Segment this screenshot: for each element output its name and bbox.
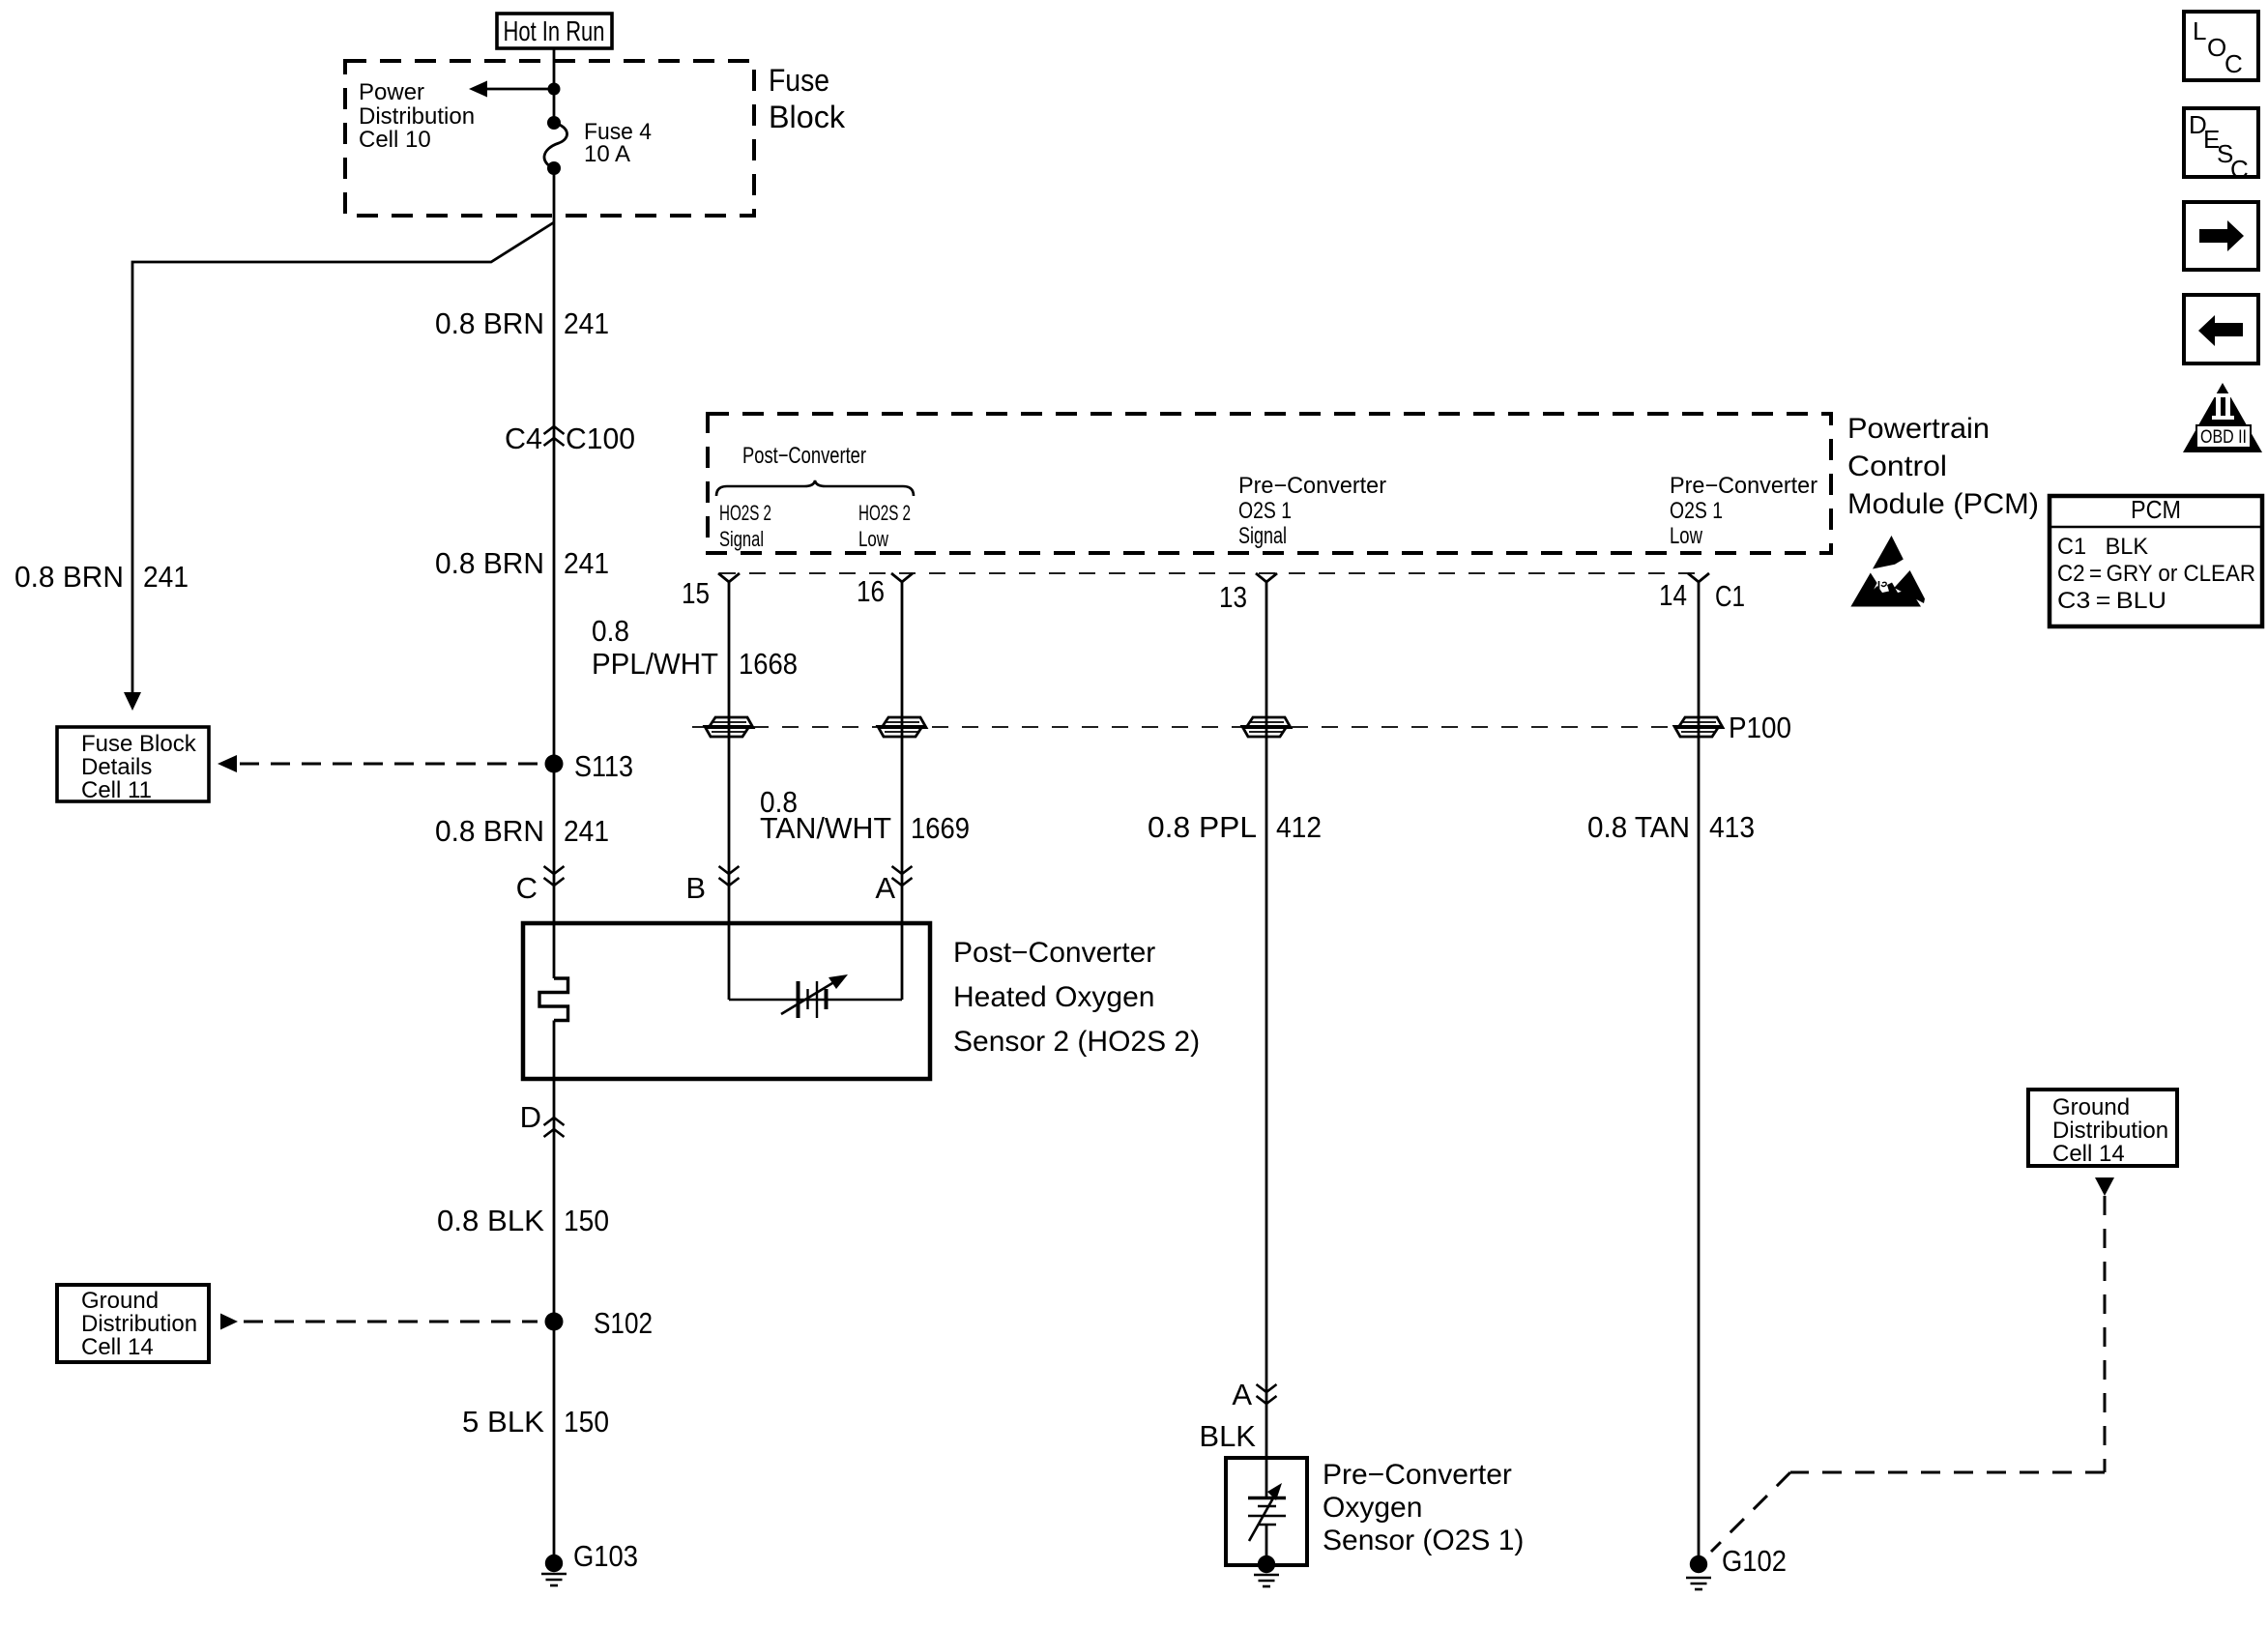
svg-text:Post−Converter: Post−Converter — [742, 443, 866, 469]
svg-text:Low: Low — [858, 527, 888, 551]
svg-text:Distribution: Distribution — [2052, 1118, 2168, 1144]
svg-text:Signal: Signal — [719, 527, 764, 551]
svg-text:S102: S102 — [594, 1306, 653, 1340]
svg-text:HO2S 2: HO2S 2 — [719, 501, 771, 525]
svg-text:C3 = BLU: C3 = BLU — [2057, 588, 2166, 614]
svg-text:PPL/WHT: PPL/WHT — [592, 647, 718, 681]
svg-text:Post−Converter: Post−Converter — [953, 937, 1155, 969]
svg-text:0.8 BRN: 0.8 BRN — [435, 546, 544, 580]
svg-text:0.8 BLK: 0.8 BLK — [437, 1204, 544, 1237]
svg-text:Cell 11: Cell 11 — [81, 777, 152, 803]
svg-text:Cell 14: Cell 14 — [2052, 1141, 2125, 1167]
svg-text:412: 412 — [1276, 810, 1322, 844]
svg-text:150: 150 — [564, 1405, 609, 1439]
svg-text:0.8 BRN: 0.8 BRN — [15, 560, 124, 594]
svg-text:0.8 BRN: 0.8 BRN — [435, 306, 544, 340]
svg-text:Module (PCM): Module (PCM) — [1847, 488, 2039, 520]
svg-text:O2S 1: O2S 1 — [1670, 498, 1723, 524]
svg-text:Pre−Converter: Pre−Converter — [1670, 473, 1817, 499]
svg-text:Hot In Run: Hot In Run — [504, 16, 605, 47]
svg-text:0.8: 0.8 — [592, 614, 629, 648]
svg-text:241: 241 — [564, 814, 609, 848]
svg-text:Distribution: Distribution — [81, 1311, 197, 1337]
svg-text:Control: Control — [1847, 451, 1947, 482]
svg-text:Low: Low — [1670, 523, 1703, 549]
svg-text:C4: C4 — [505, 422, 542, 455]
svg-text:S113: S113 — [574, 749, 633, 783]
svg-text:Pre−Converter: Pre−Converter — [1323, 1459, 1512, 1491]
svg-text:241: 241 — [564, 546, 609, 580]
svg-text:150: 150 — [564, 1204, 609, 1237]
svg-text:15: 15 — [682, 576, 710, 610]
svg-text:C2 = GRY or CLEAR: C2 = GRY or CLEAR — [2057, 561, 2255, 587]
svg-text:1669: 1669 — [911, 811, 970, 845]
svg-text:G102: G102 — [1722, 1544, 1787, 1578]
svg-text:13: 13 — [1219, 580, 1247, 614]
svg-text:G103: G103 — [573, 1539, 638, 1573]
svg-text:C: C — [516, 871, 538, 905]
svg-text:Block: Block — [769, 100, 846, 134]
svg-text:Power: Power — [359, 79, 424, 105]
svg-text:Pre−Converter: Pre−Converter — [1238, 473, 1386, 499]
svg-text:10 A: 10 A — [584, 141, 630, 167]
svg-text:14: 14 — [1659, 578, 1687, 612]
svg-text:Powertrain: Powertrain — [1847, 413, 1990, 445]
svg-text:C100: C100 — [566, 422, 635, 455]
svg-text:1668: 1668 — [739, 647, 798, 681]
svg-text:O2S 1: O2S 1 — [1238, 498, 1292, 524]
svg-text:Ground: Ground — [81, 1288, 159, 1314]
svg-text:A: A — [875, 871, 895, 905]
svg-text:BLK: BLK — [1199, 1419, 1256, 1453]
svg-text:HO2S 2: HO2S 2 — [858, 501, 911, 525]
svg-text:0.8 PPL: 0.8 PPL — [1148, 810, 1257, 844]
svg-text:Fuse Block: Fuse Block — [81, 731, 197, 757]
svg-text:0.8 BRN: 0.8 BRN — [435, 814, 544, 848]
svg-text:413: 413 — [1709, 810, 1755, 844]
svg-text:241: 241 — [143, 560, 189, 594]
svg-text:OBD II: OBD II — [2200, 427, 2247, 448]
svg-text:PCM: PCM — [2131, 495, 2181, 524]
svg-text:TAN/WHT: TAN/WHT — [760, 811, 891, 845]
svg-text:Sensor (O2S 1): Sensor (O2S 1) — [1323, 1525, 1524, 1556]
svg-text:Signal: Signal — [1238, 523, 1287, 549]
svg-text:Details: Details — [81, 754, 152, 780]
svg-text:C1 BLK: C1 BLK — [2057, 534, 2148, 560]
svg-text:241: 241 — [564, 306, 609, 340]
svg-text:B: B — [685, 871, 706, 905]
svg-text:Cell 14: Cell 14 — [81, 1334, 154, 1360]
svg-text:Sensor 2 (HO2S 2): Sensor 2 (HO2S 2) — [953, 1026, 1200, 1058]
svg-text:A: A — [1232, 1378, 1252, 1411]
svg-text:D: D — [520, 1100, 541, 1134]
svg-text:C: C — [2224, 49, 2243, 78]
svg-text:Heated Oxygen: Heated Oxygen — [953, 981, 1154, 1013]
svg-text:C1: C1 — [1715, 579, 1745, 613]
svg-text:5 BLK: 5 BLK — [462, 1405, 544, 1439]
svg-text:Fuse: Fuse — [769, 63, 829, 98]
svg-text:P100: P100 — [1729, 711, 1791, 744]
svg-text:Ground: Ground — [2052, 1094, 2130, 1120]
svg-text:16: 16 — [857, 574, 885, 608]
svg-text:C: C — [2230, 155, 2249, 184]
svg-text:Oxygen: Oxygen — [1323, 1492, 1422, 1524]
svg-text:Distribution: Distribution — [359, 103, 475, 130]
svg-text:L: L — [2193, 16, 2206, 45]
svg-text:Cell 10: Cell 10 — [359, 127, 431, 153]
svg-text:0.8 TAN: 0.8 TAN — [1587, 810, 1690, 844]
